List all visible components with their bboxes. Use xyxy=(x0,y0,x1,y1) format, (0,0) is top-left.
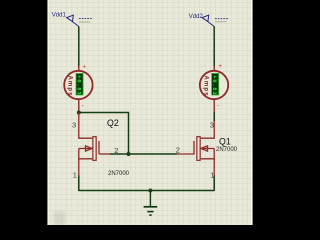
wire: AM2 top red stub xyxy=(213,66,215,71)
wire: Q2 gate red lead xyxy=(99,153,110,155)
svg-text:-: - xyxy=(217,102,219,109)
svg-text:2: 2 xyxy=(176,146,180,155)
wire: Vdd1 vertical to ammeter AM1 xyxy=(78,27,80,67)
wire: Q1 source to ground bus xyxy=(213,176,215,192)
svg-text:+: + xyxy=(83,65,87,71)
ammeter AM1 xyxy=(64,65,92,109)
wire: AM2 bottom red stub xyxy=(213,100,215,113)
svg-text:-: - xyxy=(82,102,84,109)
wire: Q2 source to ground bus xyxy=(78,176,80,192)
svg-text:2: 2 xyxy=(114,146,118,155)
svg-text:+0.83: +0.83 xyxy=(76,75,82,95)
ammeter AM2 xyxy=(200,64,228,109)
smudge artifact bottom-left xyxy=(54,212,65,225)
svg-text:3: 3 xyxy=(72,120,76,129)
schematic sheet background xyxy=(47,0,252,225)
svg-text:Q1: Q1 xyxy=(219,136,231,146)
svg-text:2N7000: 2N7000 xyxy=(108,171,130,177)
svg-text:Vdd1: Vdd1 xyxy=(52,13,67,19)
wire: Vdd2 vertical to ammeter AM2 xyxy=(213,27,215,67)
svg-text:Amps: Amps xyxy=(202,76,208,97)
power terminal Vdd2 xyxy=(202,15,228,26)
svg-text:Q2: Q2 xyxy=(107,118,119,128)
transistor Q2 (2N7000, mirrored: gate on right) xyxy=(79,113,99,191)
power terminal Vdd1 xyxy=(67,15,92,26)
node: gate bus junction xyxy=(126,152,130,156)
svg-text:1: 1 xyxy=(73,170,77,179)
svg-text:+0.83: +0.83 xyxy=(211,75,217,95)
svg-text:Amps: Amps xyxy=(67,76,73,97)
svg-text:+: + xyxy=(218,64,222,70)
svg-text:3: 3 xyxy=(210,120,214,129)
wire: AM1 bottom red stub xyxy=(78,100,80,113)
transistor Q1 (2N7000, gate on left) xyxy=(194,113,214,191)
node: ground junction xyxy=(148,189,152,193)
wire: junction to gate bus (top + right-down segment) xyxy=(79,113,129,155)
sheet edge highlights xyxy=(47,0,49,225)
node: drain of Q2 / ammeter junction xyxy=(77,111,81,115)
wire: AM1 top red stub xyxy=(78,66,80,71)
wire: green segment above Q1 drain pin xyxy=(213,112,215,121)
wire: bottom ground bus xyxy=(79,190,214,192)
ground xyxy=(144,191,158,216)
wire: Q1 gate red lead xyxy=(177,153,195,155)
wire: gate bus horizontal xyxy=(110,153,177,155)
svg-text:Vdd2: Vdd2 xyxy=(189,14,204,20)
svg-text:2N7000: 2N7000 xyxy=(216,147,238,153)
